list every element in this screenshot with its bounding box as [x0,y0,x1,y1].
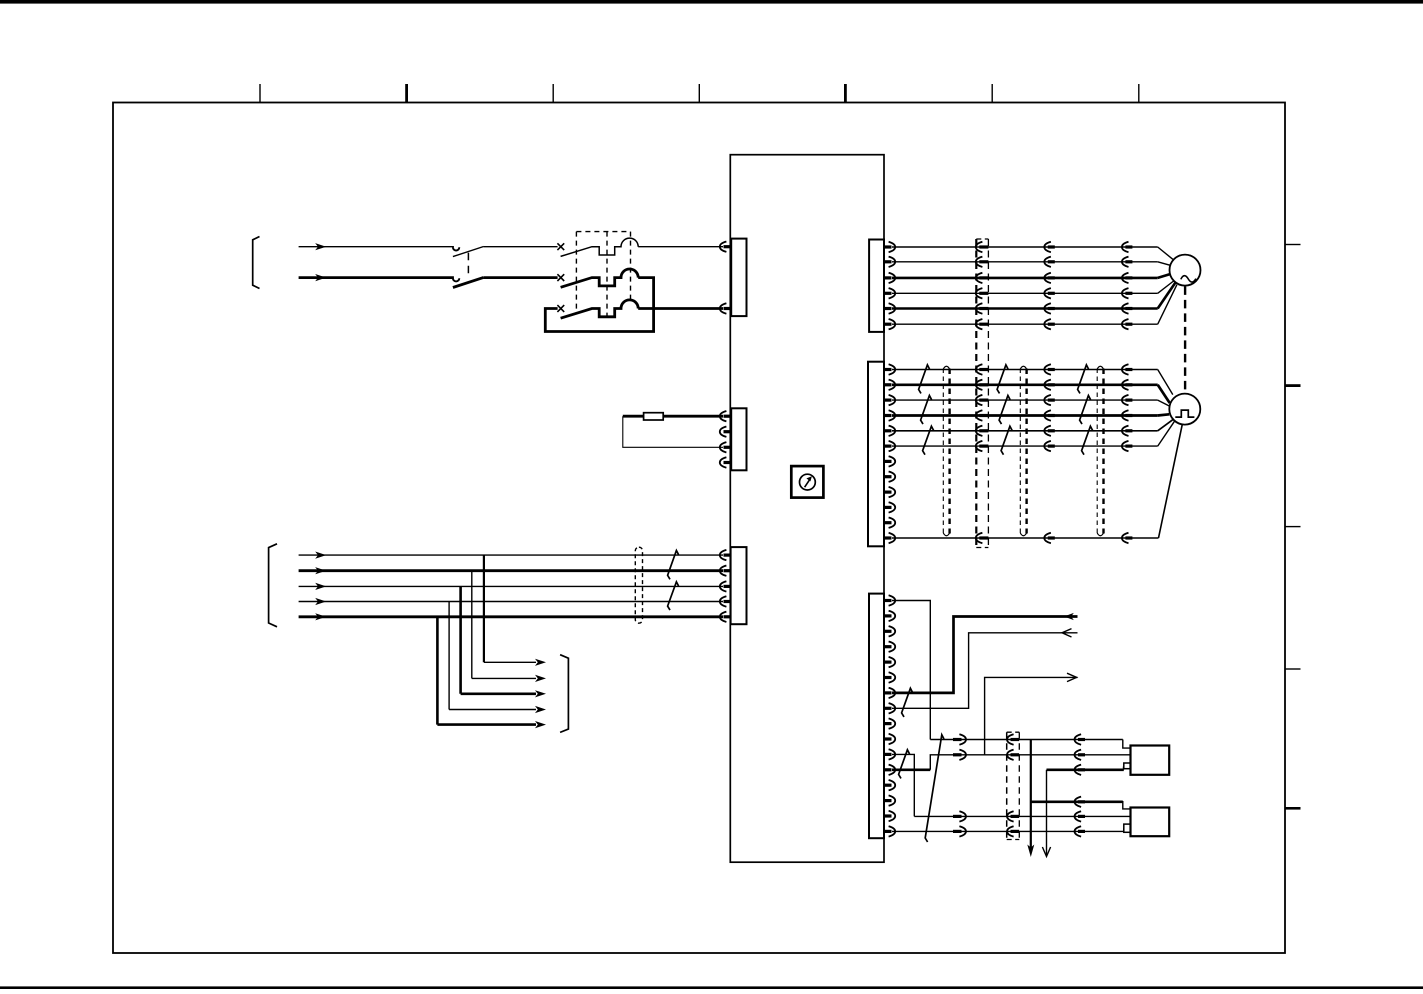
pin CN1-2 [724,307,732,310]
pin CN4-5 [884,307,892,310]
wire S3 input [299,585,723,587]
inline connector K1 (plug) [953,738,962,741]
inline connector P4 (outer) [1122,410,1129,420]
device box B (relay) [1124,808,1169,837]
branch arrow S4 [535,706,546,713]
connector CN5 (ECU right, 12-pin) [868,362,884,547]
inline connector G1 (outer) [1122,242,1129,252]
pulse sensor B1 (speed sensor) [1169,394,1200,425]
inline connector P2 (boundary) [976,380,983,390]
wire L1 feed [299,246,454,248]
pin CN5-4 [884,414,892,417]
page arrow (solid, input at 616) [1064,613,1074,620]
pin CN5-11 [884,521,892,524]
inline connector outer y=770 [1075,765,1082,775]
pin CN6-14 [884,799,892,802]
breaker gang link (dashed box) [576,232,630,317]
wire S4 input [299,601,723,603]
shield drain 1 [942,369,944,534]
inline connector outer y=755 [1075,750,1082,760]
twist slash P1/P2 set1 [919,365,930,394]
wire P2 to pulse sensor [892,385,1170,403]
flow arrow S1 [315,552,326,559]
inline connector at boundary y=816 [1007,811,1014,821]
wire G4 to generator [892,281,1174,293]
pin CN5-1 [884,368,892,371]
pin CN3-1 [724,553,732,556]
page arrow (open, output at 677) [1067,673,1077,681]
wire G3 to generator [892,274,1170,278]
resistor R1 sense loop [623,415,723,418]
wire into device box B top [1123,801,1131,809]
shield drain 2 [1019,369,1021,534]
pin CN5-7 [884,460,892,463]
inline connector G4 (outer) [1122,288,1129,298]
shield drain 3 [1096,369,1098,534]
pin CN5-2 [884,383,892,386]
connector CN6 (ECU right, 16-pin) [869,594,884,839]
pin CN5-12 [884,536,892,539]
flow arrow S3 [315,583,326,590]
inline connector G6 (outer) [1122,319,1129,329]
wire P4 to pulse sensor [892,414,1169,415]
branch wire S3 tap [461,586,536,693]
wire L2 feed [299,276,454,279]
twist slash pins 11/12 [899,750,910,779]
branch wire S2 tap [472,571,536,679]
pin CN5-8 [884,475,892,478]
wire P1 to pulse sensor [892,370,1173,395]
pin CN6-9 [884,722,892,725]
pin CN4-1 [884,245,892,248]
twist slash P5/P6 set2 [1001,426,1012,455]
pin CN6-5 [884,660,892,663]
pin CN2-1 [724,415,732,418]
branch thick run at 801 [1031,800,1123,803]
inline connector P12 (outer) [1122,533,1129,543]
inline connector G3 (mid) [1044,273,1051,283]
inline connector P12 (boundary) [976,533,983,543]
branch arrow S1 [535,659,546,666]
pin CN5-6 [884,445,892,448]
signal lead (thin down arrow) [1042,770,1050,857]
wire K16 run [892,830,1124,832]
inline connector P6 (boundary) [976,441,983,451]
wire P3 to pulse sensor [892,400,1169,406]
harness boundary (dashed pair, lower) [1007,732,1020,839]
inline connector outer y=831 [1075,826,1082,836]
pin CN6-2 [884,614,892,617]
inline connector G1 (mid) [1044,242,1051,252]
pin CN4-2 [884,260,892,263]
inline connector G3 (boundary) [976,273,983,283]
generator GEN1 (AC symbol) [1170,255,1201,286]
pin CN2-3 [724,446,732,449]
inline connector P5 (boundary) [976,426,983,436]
pin CN2-4 [724,461,732,464]
long twist slash (bundle) [925,735,944,842]
twist slash P3/P4 set2 [999,396,1010,425]
inline connector P2 (outer) [1122,380,1129,390]
connector CN2 (ECU left, 4-pin) [731,408,746,470]
wire K8 output [892,633,1078,709]
wire K7 output [892,617,1078,693]
disconnect switch S1b (line L2) [453,278,459,281]
gauge icon M1 (meter in box) [791,466,823,498]
disconnect switch S1a (line L1) [453,247,459,250]
pin CN6-1 [884,599,892,602]
wire L2 loop to L3 input [545,278,653,332]
inline connector P3 (mid) [1044,395,1051,405]
device box A (relay) [1124,746,1169,775]
inline connector P12 (mid) [1044,533,1051,543]
shield oval (sensor harness) [635,547,642,623]
wire K12 (thick stub) [892,768,930,771]
pin CN5-5 [884,429,892,432]
bracket (branch output group) [560,655,568,733]
inline connector P6 (mid) [1044,441,1051,451]
inline connector P1 (outer) [1122,364,1129,374]
page arrow (open, input at 632) [1062,629,1072,637]
inline connector P5 (outer) [1122,426,1129,436]
flow arrow S4 [315,598,326,605]
inline connector outer y=740 [1075,734,1082,744]
inline connector K16 (plug) [953,830,962,833]
wire P12 sensor return [892,424,1182,538]
wire K1 (pin1 down-feed) [892,601,930,740]
inline connector P1 (boundary) [976,364,983,374]
inline connector P4 (mid) [1044,410,1051,420]
inline connector K11 (plug) [953,815,962,818]
inline connector P3 (boundary) [976,395,983,405]
twist slash P5/P6 set3 [1082,426,1093,455]
wire G6 to generator [892,285,1177,325]
switch mechanical link (dashed) [467,253,469,278]
connector CN3 (ECU left, 5-pin) [731,547,747,624]
twist slash S1/S2 [668,551,679,580]
pin CN6-12 [884,768,892,771]
control unit U1 (main ECU box) [730,155,884,863]
inline connector at boundary y=740 [1007,734,1014,744]
pin CN3-2 [724,569,732,572]
pin CN4-4 [884,292,892,295]
pin CN6-6 [884,676,892,679]
wire R1 return [623,416,723,447]
wire K11 run to device box B [914,815,1130,817]
pin CN6-8 [884,707,892,710]
wire G5 to generator [892,283,1175,309]
pin CN4-6 [884,323,892,326]
wire L1 breaker-to-connector [638,246,723,248]
twist slash P5/P6 set1 [923,426,934,455]
mechanical link generator-to-sensor (dashed) [1184,286,1186,393]
circuit breaker CB3 (line L3) [557,305,564,312]
harness boundary (dashed pair, upper) [976,239,988,548]
pin CN4-3 [884,276,892,279]
circuit breaker CB2 (line L2) [557,274,564,281]
twist slash P3/P4 set3 [1080,396,1091,425]
flow arrow S2 [315,567,326,574]
twist slash P1/P2 set3 [1078,365,1089,394]
wire K12 step-up run to device box A [930,755,1130,770]
inline connector G4 (mid) [1044,288,1051,298]
inline connector outer y=816 [1075,811,1082,821]
inline connector P4 (boundary) [976,410,983,420]
inline connector G2 (boundary) [976,257,983,267]
wire L3 breaker-to-connector [638,307,723,310]
inline connector P3 (outer) [1122,395,1129,405]
branch wire S4 tap [449,602,536,710]
branch wire S1 tap [484,555,536,662]
twist slash S3/S4 [668,582,679,610]
branch arrow S3 [535,690,546,697]
inline connector outer y=802 [1075,797,1082,807]
branch arrow S2 [535,675,546,682]
inline connector G1 (boundary) [976,242,983,252]
wire S1 input [299,554,723,556]
inline connector K12 (plug) [953,753,962,756]
wire P5 to pulse sensor [892,419,1173,431]
pin CN5-9 [884,491,892,494]
pin CN6-16 [884,830,892,833]
pin CN6-10 [884,737,892,740]
twist slash pins 7/8 [902,688,913,717]
wire P6 to pulse sensor [892,421,1175,446]
branch arrow S5 [535,721,546,728]
inline connector at boundary y=755 [1007,750,1014,760]
inline connector G4 (boundary) [976,288,983,298]
inline connector P5 (mid) [1044,426,1051,436]
pin CN6-13 [884,784,892,787]
pin CN6-4 [884,645,892,648]
flow arrow L1 [315,243,326,250]
inline connector G2 (outer) [1122,257,1129,267]
pin CN3-3 [724,585,732,588]
bracket (sensor input group) [269,544,277,627]
twist slash P3/P4 set1 [921,396,932,425]
twist slash P1/P2 set2 [997,365,1008,394]
pin CN2-2 [724,430,732,433]
pin CN5-10 [884,506,892,509]
wire S5 input [299,615,723,618]
pin CN3-5 [724,615,732,618]
inline connector P1 (mid) [1044,364,1051,374]
flow arrow L2 [315,274,326,281]
inline connector P2 (mid) [1044,380,1051,390]
inline connector G2 (mid) [1044,257,1051,267]
pin CN5-3 [884,399,892,402]
pin CN6-11 [884,753,892,756]
pin CN3-4 [724,600,732,603]
ground lead (thick down arrow) [1027,740,1034,858]
wire K11 down-feed [892,754,914,816]
inline connector at boundary y=831 [1007,826,1014,836]
wire K-thick to device box A lower tab [1047,768,1124,771]
circuit breaker CB1 (line L1) [557,243,564,250]
inline connector G3 (outer) [1122,273,1129,283]
pin CN6-15 [884,814,892,817]
inline connector G5 (boundary) [976,303,983,313]
wire S2 input [299,569,723,572]
wire L1 switch-to-breaker [484,246,558,248]
wire K1 into device box A [1123,740,1131,749]
inline connector P6 (outer) [1122,441,1129,451]
pin CN1-1 [724,245,732,248]
wire K16 into device box B lower tab [1123,828,1125,831]
branch wire S5 tap [437,617,536,725]
connector CN4 (ECU right, 6-pin) [869,240,884,332]
wire G2 to generator [892,262,1170,265]
connector CN1 (ECU left, 2-pin) [731,239,746,317]
wire G1 to generator [892,247,1173,260]
inline connector G5 (mid) [1044,303,1051,313]
bracket (supply input group) [253,237,260,289]
pin CN6-7 [884,691,892,694]
inline connector G6 (mid) [1044,319,1051,329]
pin CN6-3 [884,630,892,633]
wire L2 switch-to-breaker [484,276,558,279]
inline connector G5 (outer) [1122,303,1129,313]
wire K1 run [930,739,1123,741]
flow arrow S5 [315,613,326,620]
resistor R1 [644,413,664,420]
inline connector G6 (boundary) [976,319,983,329]
branch wire to page arrow 677 [985,677,1078,754]
